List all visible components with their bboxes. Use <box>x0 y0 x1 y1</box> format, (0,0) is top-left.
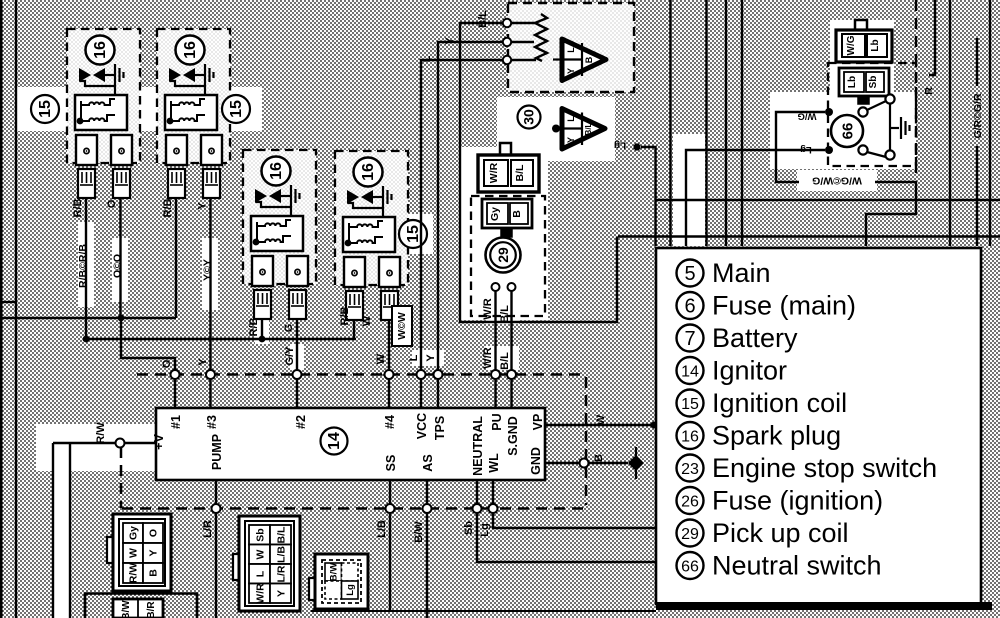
svg-text:B/W: B/W <box>413 521 425 543</box>
svg-text:66: 66 <box>681 559 699 576</box>
left edge border <box>0 0 3 618</box>
svg-text:G: G <box>283 324 295 333</box>
pick up coil terminals <box>492 283 500 291</box>
svg-text:G/Y: G/Y <box>284 346 296 366</box>
svg-text:15: 15 <box>405 225 422 243</box>
neutral switch connector Lb Sb <box>839 68 889 104</box>
svg-text:14: 14 <box>681 364 699 381</box>
wire S.GND stub <box>510 379 512 408</box>
wire PUMP down <box>215 480 217 618</box>
svg-text:30: 30 <box>521 109 537 125</box>
dashed harness left vertical <box>120 447 123 508</box>
svg-text:16: 16 <box>681 429 699 446</box>
node B/W connector <box>423 504 432 513</box>
switch terminal Lg <box>825 146 833 154</box>
component label 30 <box>518 106 541 129</box>
svg-text:R/B: R/B <box>248 317 260 336</box>
main dashed harness lines <box>121 375 586 509</box>
ignitor unit 14 box <box>156 408 545 480</box>
svg-text:R/B: R/B <box>72 198 84 217</box>
wire #2 stub <box>296 379 298 408</box>
wire coil4 R/B <box>353 320 355 339</box>
terminal 30-1 <box>503 19 511 27</box>
right side vertical wires <box>633 0 1000 246</box>
svg-text:TPS: TPS <box>433 416 447 440</box>
svg-text:Sb: Sb <box>463 521 475 535</box>
legend items <box>677 258 938 581</box>
node R/B junction 2 <box>259 336 266 343</box>
svg-text:W/G: W/G <box>798 111 817 122</box>
svg-text:Main: Main <box>712 258 771 288</box>
svg-text:GND: GND <box>529 447 543 475</box>
svg-text:SS: SS <box>384 455 398 472</box>
svg-text:Y: Y <box>425 354 437 362</box>
svg-text:B/W: B/W <box>121 600 132 618</box>
node L connector <box>417 370 426 379</box>
wire W/G from switch <box>776 112 916 246</box>
wire NEUTRAL down <box>477 480 656 562</box>
wire vertical x950 <box>949 0 951 246</box>
node Y connector <box>206 370 215 379</box>
wire WL down <box>493 480 656 528</box>
svg-text:Y: Y <box>444 37 456 45</box>
legend box <box>656 248 992 610</box>
wire vertical x726 <box>725 0 727 246</box>
svg-text:L: L <box>566 116 576 122</box>
svg-text:+V: +V <box>152 434 166 450</box>
svg-text:B: B <box>148 569 160 577</box>
switch contacts <box>858 107 867 116</box>
svg-text:B/L: B/L <box>477 10 489 28</box>
wire vertical x670 <box>669 0 671 246</box>
neutral switch dashed enclosure <box>828 63 916 166</box>
svg-text:Pick up coil: Pick up coil <box>712 518 849 548</box>
svg-text:Fuse (ignition): Fuse (ignition) <box>712 486 883 516</box>
svg-text:Lg: Lg <box>345 584 356 596</box>
svg-text:R/B©R/B: R/B©R/B <box>77 244 89 288</box>
svg-text:14: 14 <box>326 432 343 450</box>
pick up coil connector W/R B/L <box>478 143 539 192</box>
node B connector <box>580 459 589 468</box>
svg-text:L: L <box>255 570 267 577</box>
svg-text:Y: Y <box>276 590 288 597</box>
wire Lg terminal branch <box>641 147 656 246</box>
wire R/W feed <box>53 443 156 618</box>
svg-text:O: O <box>106 199 118 208</box>
wire L from 30 <box>421 60 503 370</box>
svg-text:VP: VP <box>531 414 545 431</box>
node Sb connector <box>473 504 482 513</box>
svg-text:B/L: B/L <box>499 352 511 370</box>
component 30 wires <box>421 14 1000 370</box>
svg-text:15: 15 <box>681 396 699 413</box>
svg-text:W/R: W/R <box>255 583 267 604</box>
ignition coil label 15 (coil 1) <box>31 95 59 123</box>
node L/R connector <box>212 504 221 513</box>
svg-text:S.GND: S.GND <box>506 416 520 456</box>
wire R/B bus lower <box>86 338 356 340</box>
svg-text:W©W: W©W <box>396 312 408 340</box>
pick up coil connector Gy B <box>482 199 532 237</box>
svg-text:29: 29 <box>495 247 511 263</box>
wire vertical x706 <box>705 0 707 246</box>
svg-text:B: B <box>593 454 605 462</box>
svg-text:R/W: R/W <box>128 563 140 584</box>
wire R/B bus upper <box>0 317 176 319</box>
svg-text:L/R: L/R <box>276 565 288 582</box>
connector 6-pin bottom left <box>107 514 171 591</box>
svg-text:O: O <box>148 529 160 537</box>
svg-text:Battery: Battery <box>712 323 798 353</box>
harness connector circles on top dashed line <box>116 370 589 513</box>
svg-text:Sb: Sb <box>255 528 267 541</box>
svg-text:7: 7 <box>684 328 695 350</box>
wire #4 stub <box>388 379 390 408</box>
svg-text:Lg: Lg <box>479 523 491 536</box>
svg-text:B/W: B/W <box>329 563 340 582</box>
wire B/L from 30 <box>460 23 1000 322</box>
connector triangle 2 <box>552 109 605 150</box>
svg-text:W/G: W/G <box>846 35 857 55</box>
svg-text:Engine stop switch: Engine stop switch <box>712 453 937 483</box>
neutral switch 66 <box>825 94 910 159</box>
ground frame symbol <box>635 447 637 479</box>
terminal 30-2 <box>503 38 511 46</box>
ignition coil assembly 1 <box>67 29 140 198</box>
svg-text:Y: Y <box>197 202 209 210</box>
wire coil1 O <box>121 197 176 370</box>
svg-text:Y: Y <box>566 137 576 143</box>
svg-text:#2: #2 <box>294 415 308 429</box>
wire colour labels rotated <box>72 10 984 543</box>
W(C)W boxed label <box>392 306 412 346</box>
svg-text:6: 6 <box>684 296 695 318</box>
svg-text:5: 5 <box>684 263 695 285</box>
svg-text:W/R: W/R <box>482 347 494 368</box>
svg-text:B/L: B/L <box>276 526 288 544</box>
svg-text:L: L <box>408 354 420 361</box>
node W connector <box>385 370 394 379</box>
svg-text:B: B <box>511 210 523 218</box>
ignition coil assembly 3 <box>243 150 316 319</box>
wire PU stub <box>494 379 496 408</box>
wire #1 stub <box>174 379 176 408</box>
switch ground lead <box>890 127 899 129</box>
ignition coil assembly 4 <box>335 151 408 320</box>
svg-text:Gy: Gy <box>128 526 140 540</box>
connector 4-pin dashed bottom middle <box>309 554 368 609</box>
wire coil3 G <box>296 318 298 370</box>
node VP junction <box>651 422 658 429</box>
svg-text:L/R: L/R <box>202 520 214 538</box>
wire W/R pickup <box>494 291 496 370</box>
svg-text:W/R: W/R <box>488 162 500 183</box>
wire VP <box>545 424 656 426</box>
svg-text:O: O <box>161 359 173 368</box>
svg-text:23: 23 <box>681 461 699 478</box>
ignitor label 14 <box>321 428 348 455</box>
wire vertical x742 <box>741 0 743 246</box>
svg-text:Y©Y: Y©Y <box>202 259 214 281</box>
wire coil2 Y <box>209 197 211 370</box>
svg-text:B/L: B/L <box>584 122 593 135</box>
terminal 30-3 <box>503 56 511 64</box>
connector bottom left partial <box>85 594 197 618</box>
switch terminal W/G <box>825 108 833 116</box>
svg-text:Ignition coil: Ignition coil <box>712 388 847 418</box>
wire #3 stub <box>209 379 211 408</box>
svg-text:#1: #1 <box>169 415 183 429</box>
svg-text:W/R: W/R <box>482 298 494 319</box>
svg-text:Spark plug: Spark plug <box>712 421 841 451</box>
svg-text:AS: AS <box>421 454 435 471</box>
ignitor pin stub wires <box>53 379 657 618</box>
svg-text:NEUTRAL: NEUTRAL <box>471 416 485 476</box>
svg-text:WL: WL <box>487 453 501 473</box>
component 30 dashed enclosure <box>508 3 634 92</box>
wire coil3 R/B <box>261 318 263 339</box>
ignition coil assembly 2 <box>157 29 230 198</box>
svg-text:W: W <box>375 353 387 364</box>
svg-text:#3: #3 <box>205 415 219 429</box>
svg-text:PUMP: PUMP <box>210 434 224 470</box>
ignitor pin labels <box>152 413 545 476</box>
svg-text:Y: Y <box>148 549 160 556</box>
wire bottom edge line <box>311 610 656 612</box>
svg-text:G/R©G/R: G/R©G/R <box>972 93 984 138</box>
svg-text:Y: Y <box>197 358 209 366</box>
neutral switch connector W/G Lb <box>836 20 892 62</box>
svg-text:R: R <box>923 87 935 95</box>
wire vertical x990 <box>989 0 991 246</box>
svg-text:29: 29 <box>681 526 699 543</box>
pick up coil 29 <box>486 238 521 371</box>
connector triangle 1 <box>553 39 606 81</box>
svg-text:B/L: B/L <box>499 305 511 323</box>
node W/R connector <box>491 370 500 379</box>
dashed harness top <box>137 373 586 376</box>
svg-text:26: 26 <box>681 494 699 511</box>
wire coil1 R/B <box>85 197 87 339</box>
svg-text:Lb: Lb <box>870 39 881 51</box>
svg-text:O©O: O©O <box>112 254 124 278</box>
node B/L connector <box>507 370 516 379</box>
svg-text:Y: Y <box>566 68 576 74</box>
wire B/L pickup <box>510 291 512 370</box>
ignition coil label 15 (coil 4) <box>399 220 427 248</box>
wire GND <box>545 462 628 464</box>
node R/W connector <box>116 439 125 448</box>
ignition coil label 15 (coil 2) <box>222 95 250 123</box>
svg-text:W: W <box>255 549 267 559</box>
wire stub left <box>0 301 16 303</box>
pick up coil dashed enclosure <box>471 196 545 316</box>
node R/B junction 1 <box>83 336 90 343</box>
wire AS down <box>426 480 428 618</box>
svg-text:Neutral switch: Neutral switch <box>712 551 882 581</box>
svg-text:L: L <box>421 55 433 62</box>
wire Lg from switch <box>686 150 825 246</box>
svg-text:VCC: VCC <box>415 413 429 439</box>
svg-text:66: 66 <box>840 123 857 140</box>
svg-text:PU: PU <box>490 413 504 430</box>
node O junction <box>118 315 125 322</box>
node L/B connector <box>386 504 395 513</box>
node Lg connector <box>489 504 498 513</box>
wire coil2 R/B <box>175 197 177 318</box>
dashed wire x916 <box>915 0 917 178</box>
svg-text:R/B: R/B <box>162 198 174 217</box>
node G/Y connector <box>293 370 302 379</box>
wire coil4 W <box>388 320 390 370</box>
svg-text:Ignitor: Ignitor <box>712 356 787 386</box>
wire SS down <box>389 480 391 610</box>
svg-text:R/W: R/W <box>95 422 107 444</box>
wire x935 short <box>929 0 935 75</box>
svg-text:15: 15 <box>37 100 54 118</box>
svg-text:Lg: Lg <box>800 144 812 155</box>
svg-text:W/G©W/G: W/G©W/G <box>812 175 862 187</box>
svg-text:W: W <box>128 548 140 558</box>
dashed harness bottom <box>122 507 586 510</box>
svg-text:B/L: B/L <box>514 164 526 182</box>
svg-text:B: B <box>584 56 594 63</box>
resistor zigzag <box>535 14 547 61</box>
svg-text:Gy: Gy <box>489 207 501 221</box>
svg-text:L/B: L/B <box>276 546 288 563</box>
dashed harness right vertical <box>585 377 588 505</box>
wire left vertical <box>15 0 17 618</box>
wire horizontal y200 <box>656 199 1000 201</box>
svg-text:15: 15 <box>228 100 245 118</box>
svg-text:W: W <box>361 315 373 326</box>
svg-text:Fuse (main): Fuse (main) <box>712 291 856 321</box>
svg-text:Lb: Lb <box>847 76 858 88</box>
connector 8-pin bottom middle <box>233 516 300 611</box>
node O connector <box>171 370 180 379</box>
wire G/R <box>976 38 978 246</box>
svg-text:R/B: R/B <box>339 306 351 325</box>
node Y2 connector <box>434 370 443 379</box>
svg-text:#4: #4 <box>383 415 397 429</box>
svg-text:W: W <box>595 414 607 425</box>
wire VCC stub <box>420 379 422 408</box>
wire TPS stub <box>437 379 439 408</box>
svg-text:Sb: Sb <box>868 76 879 89</box>
svg-text:L: L <box>566 47 576 53</box>
svg-text:Lg: Lg <box>614 140 626 151</box>
svg-text:L/B: L/B <box>376 520 388 538</box>
svg-text:B/R: B/R <box>146 601 157 618</box>
wire Y from 30 <box>438 42 503 370</box>
wire terminals to resistor <box>511 23 536 60</box>
